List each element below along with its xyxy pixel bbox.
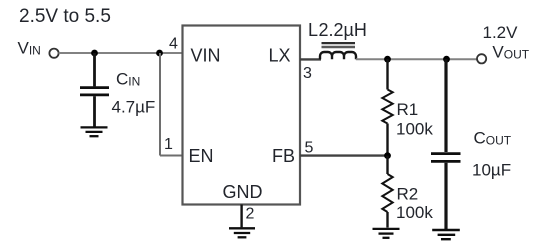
inductor L1 humps [320,52,356,59]
svg-text:L2.2µH: L2.2µH [308,20,367,40]
svg-text:10µF: 10µF [472,161,511,180]
wire EN branch horizontal to pin 1 [160,155,182,157]
svg-text:2: 2 [246,206,255,223]
wire COUT to ground [444,163,447,229]
junction EN branch node [156,50,163,57]
wire R2 bottom lead [386,212,388,228]
capacitor C_IN plates [80,88,109,95]
capacitor C_OUT plates [431,154,461,162]
svg-text:100k: 100k [396,120,433,139]
wire output rail [356,58,477,60]
wire GND pin drop [240,205,242,228]
op IC body [183,26,301,205]
svg-text:FB: FB [272,146,295,166]
svg-text:2.5V to 5.5: 2.5V to 5.5 [19,6,111,27]
ground (C_OUT) [432,230,460,239]
wire LX stub [300,58,321,60]
wire R2 top lead [386,156,388,174]
wire CIN drop [93,53,96,86]
svg-text:EN: EN [189,146,214,166]
svg-text:R2: R2 [397,185,419,204]
inductor core bars [322,42,356,44]
svg-text:GND: GND [223,182,263,202]
svg-text:VIN: VIN [191,46,221,66]
wire R1 top lead [386,59,388,89]
resistor R1 [382,90,392,124]
wire VIN rail to pin 4 [59,52,183,54]
resistor R2 [382,174,392,212]
wire EN branch vertical [159,53,161,156]
ground (R2) [373,229,400,238]
svg-text:4.7µF: 4.7µF [112,98,156,117]
wire CIN to ground [93,96,96,126]
junction CIN node [91,50,98,57]
junction COUT node [443,56,450,63]
svg-text:1.2V: 1.2V [483,23,519,42]
svg-text:1: 1 [164,136,173,153]
ground (C_IN) [81,127,108,136]
junction FB node [384,152,391,159]
svg-text:3: 3 [303,65,312,82]
wire R1 bottom lead [386,124,388,156]
wire FB to divider [300,154,388,156]
junction R1 node [384,56,391,63]
svg-text:4: 4 [169,36,178,53]
wire COUT drop [444,59,447,152]
terminal VOUT [477,54,486,63]
svg-text:R1: R1 [397,100,419,119]
svg-text:5: 5 [305,140,314,157]
ground (IC GND) [229,228,255,237]
terminal VIN [49,49,58,58]
svg-text:100k: 100k [396,203,433,222]
svg-text:LX: LX [269,46,291,66]
